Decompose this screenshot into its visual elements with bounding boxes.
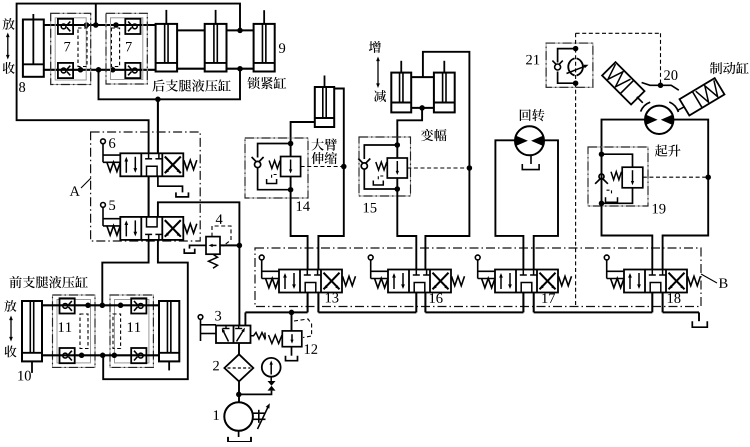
valve 6 drain wire: [158, 176, 183, 192]
pilot check block 7 left: [51, 13, 91, 84]
valve 13 crossed position: [324, 273, 340, 290]
block 11R lower check valve: [131, 348, 146, 363]
section A enclosure: [91, 132, 201, 241]
valve 13 right spring: [343, 276, 356, 286]
label 9: [279, 43, 285, 53]
slewing motor drain: [530, 155, 532, 164]
valve 17 left position arrows: [500, 275, 502, 289]
wire valve5 to front top bus: [102, 240, 148, 305]
valve 17 left spring: [482, 278, 496, 288]
filter 2: [238, 343, 240, 354]
valve 17 right spring: [559, 276, 572, 286]
lock cylinder label: [247, 77, 286, 89]
pump 1: [224, 402, 253, 431]
label 17: [542, 293, 555, 303]
directional valve 13 lever: [259, 255, 264, 260]
front outrigger label: [10, 276, 88, 288]
label 16: [430, 293, 443, 303]
pump shaft: [253, 412, 266, 414]
gauge branch wire: [239, 391, 272, 395]
front top bus wire: [42, 304, 159, 306]
valve 6 left position arrows: [125, 159, 127, 173]
label B: [719, 278, 728, 287]
counterbalance valve 19 enclosure: [588, 147, 648, 206]
front extend-retract arrow: [10, 320, 12, 338]
label 8: [19, 82, 25, 92]
cylinder telescope: [315, 87, 334, 127]
label 7 right: [126, 42, 132, 51]
block 11R pilot lines: [113, 314, 121, 349]
relief valve 12 body: [282, 331, 302, 347]
valve 5 centre position ports: [148, 234, 150, 240]
slewing motor label: [520, 109, 545, 121]
block 7L lower check valve: [58, 63, 73, 78]
label 13: [326, 293, 339, 303]
throttle 21 check branch: [558, 49, 576, 63]
valve 5 left spring: [107, 226, 121, 236]
label 10: [18, 371, 31, 381]
block 11L upper check valve: [60, 298, 75, 313]
counterbalance 15 drain tank: [378, 176, 383, 180]
wire cb19 to valve 18: [602, 203, 653, 269]
valve 16 body: [388, 270, 451, 293]
supply bus wires: [245, 311, 307, 313]
gauge shutoff valve: [268, 381, 276, 386]
section B enclosure: [255, 248, 701, 307]
counterbalance valve 14 enclosure: [245, 138, 308, 198]
label 1: [214, 410, 219, 420]
directional valve 5 lever: [101, 203, 106, 208]
valve 18 body: [624, 270, 687, 293]
cylinder luffing-L: [391, 73, 411, 113]
luffing label: [421, 129, 447, 141]
relief valve 12 spring: [269, 335, 283, 344]
label 15: [364, 203, 377, 213]
slewing motor right wire: [534, 140, 558, 269]
supply wire valve3 to valve5: [158, 202, 240, 325]
wire bus to valve 6 right port: [157, 99, 159, 153]
wire cb14 to valve 13: [291, 190, 308, 270]
pilot check block 7 right: [106, 13, 147, 84]
counterbalance 19 main line: [601, 154, 603, 203]
rear outrigger frame wire: [95, 4, 97, 25]
label 20: [664, 70, 677, 80]
rear bottom bus wire: [44, 69, 156, 71]
valve 18 right spring: [688, 276, 701, 286]
counterbalance 19 relief branch: [602, 154, 633, 167]
valve 6 right spring: [184, 160, 197, 170]
counterbalance 19 pilot line: [643, 176, 708, 178]
valve 16 centre position ports: [415, 270, 417, 276]
valve 6 drain tank: [176, 192, 189, 197]
valve 16 left position arrows: [393, 275, 395, 289]
label fang front: [4, 300, 16, 312]
block 7R upper check valve: [125, 19, 140, 34]
counterbalance 14 main line: [290, 144, 292, 190]
counterbalance 15 pilot line: [407, 167, 469, 169]
luffing bottom feed wire: [397, 108, 422, 145]
directional valve 6 lever: [101, 139, 106, 144]
brake cylinder left rod: [637, 97, 643, 103]
label A: [70, 186, 80, 196]
relief valve 12 pilot line: [294, 319, 312, 338]
telescope rod-side wire: [291, 122, 315, 144]
counterbalance valve 15 enclosure: [359, 137, 411, 196]
counterbalance 19 drain tank: [607, 190, 612, 195]
hydraulic motor hoist (qi sheng): [645, 106, 673, 134]
label 19: [653, 204, 666, 214]
valve 5 right spring: [184, 224, 197, 234]
directional valve 17 lever: [475, 255, 480, 260]
valve 17 body: [495, 270, 558, 293]
valve 3 arrows: [223, 331, 229, 342]
relief valve 4 pilot line: [212, 226, 231, 246]
brake pilot wire: [642, 83, 679, 91]
increase-decrease arrow: [377, 61, 379, 85]
counterbalance 14 check branch: [258, 144, 291, 158]
luffing top feed wire: [423, 52, 470, 270]
cylinder: [156, 24, 178, 72]
relief valve 4 spring: [209, 254, 218, 268]
cylinder 8: [23, 20, 44, 77]
label 3: [215, 311, 221, 321]
telescope label: [312, 138, 337, 150]
valve 18 crossed position: [669, 273, 685, 290]
pump suction tank: [238, 431, 240, 437]
cylinder: [159, 301, 179, 361]
lock cylinder link wires: [177, 29, 205, 31]
valve 3 lever: [198, 315, 203, 320]
valve 17 crossed position: [540, 273, 556, 290]
wire valve3 right port to bus: [244, 312, 246, 325]
relief valve 12 tank: [291, 347, 293, 356]
label 4: [216, 214, 223, 224]
valve 13 left position arrows: [284, 275, 286, 289]
luffing cylinder connectors: [411, 76, 434, 78]
block 11L lower check valve: [60, 348, 75, 363]
block 11L pilot lines: [80, 314, 88, 349]
hydraulic motor slewing (hui zhuan): [515, 126, 544, 155]
valve 6 crossed position: [165, 157, 181, 174]
hoist motor left wire: [602, 120, 647, 155]
counterbalance 15 relief square: [387, 158, 407, 178]
valve 16 crossed position: [433, 273, 449, 290]
valve 13 centre position ports: [306, 270, 308, 276]
label shou (retract): [3, 62, 15, 74]
relief valve 4 body: [206, 237, 220, 255]
pilot check block 11 left: [53, 295, 96, 367]
label 2: [213, 361, 219, 371]
block 7L pilot lines: [78, 28, 87, 67]
label zeng (increase): [369, 41, 381, 53]
valve 3 body: [216, 326, 251, 344]
label 21: [526, 55, 539, 65]
valve 16 right spring: [452, 276, 465, 286]
cylinder luffing-R: [434, 73, 455, 113]
hoist motor right wire: [663, 120, 709, 270]
label 18: [668, 293, 681, 303]
block 7L upper check valve: [58, 19, 73, 34]
label jian (decrease): [374, 90, 386, 102]
extend-retract arrow: [7, 37, 9, 56]
slewing motor left wire: [495, 140, 523, 269]
one-way throttle 21 enclosure: [546, 43, 593, 87]
label fang (extend): [3, 18, 15, 30]
wire lock-cylinder to valve 6 bus: [99, 69, 241, 100]
label 11 right: [128, 322, 140, 332]
relief valve 4 outlet wire: [220, 244, 239, 246]
throttle 21 restrictor: [568, 58, 574, 75]
wire valve5 to front bottom bus: [103, 240, 188, 379]
front bottom bus wire: [42, 354, 159, 356]
valve 18 left spring: [611, 278, 625, 288]
pilot check block 11 right: [110, 295, 153, 367]
wire filter to pump: [238, 381, 240, 402]
wire valve6 to valve5: [148, 176, 150, 217]
valve 18 left position arrows: [629, 275, 631, 289]
label 5: [109, 200, 115, 210]
telescope piston-side wire: [318, 89, 343, 270]
cylinder: [205, 24, 227, 72]
label 6: [109, 138, 115, 148]
rear cylinder group label: [152, 79, 230, 91]
valve 6 body: [120, 153, 183, 176]
brake cylinder right: [680, 78, 725, 115]
brake cylinder left: [602, 62, 644, 104]
cylinder 10: [22, 301, 42, 361]
tank after valve 18: [698, 312, 700, 321]
block 7R lower check valve: [125, 63, 140, 78]
label 7 left: [65, 42, 71, 51]
cylinder 9: [254, 24, 275, 72]
valve 5 body: [120, 217, 183, 240]
label shou front: [5, 346, 17, 358]
block 7R pilot lines: [111, 28, 119, 67]
counterbalance 14 relief square: [281, 157, 301, 177]
rear top bus wire: [44, 24, 156, 26]
valve 6 left spring: [107, 162, 121, 172]
counterbalance 15 check branch: [364, 145, 397, 159]
wire cb15 to valve 16: [397, 189, 416, 270]
relief valve 12 wire: [291, 312, 293, 331]
valve 13 left spring: [266, 278, 280, 288]
counterbalance 14 pilot line: [301, 166, 344, 168]
directional valve 16 lever: [368, 255, 373, 260]
valve 6 centre position ports: [148, 153, 150, 159]
counterbalance 19 check on main: [599, 174, 604, 179]
label 12: [305, 344, 317, 354]
relief valve 4 tank: [190, 245, 207, 248]
pump variable arrow: [258, 406, 269, 429]
valve 16 left spring: [375, 278, 389, 288]
brake cylinder right rod: [677, 107, 685, 111]
valve 5 crossed position: [165, 220, 181, 237]
valve 13 body: [279, 270, 342, 293]
pilot line 21 to brakes: [575, 33, 577, 48]
label 11 left: [59, 322, 71, 332]
hoist label: [655, 145, 681, 157]
valve bottom port wires: [307, 293, 309, 313]
pressure gauge: [262, 358, 281, 377]
valve 17 centre position ports: [522, 270, 524, 276]
valve 5 left position arrows: [125, 222, 127, 236]
valve 18 centre position ports: [651, 270, 653, 276]
counterbalance 19 relief square: [622, 167, 643, 188]
directional valve 18 lever: [604, 255, 609, 260]
counterbalance 15 main line: [396, 145, 398, 189]
label 14: [297, 201, 310, 211]
brake cylinder label: [710, 62, 749, 74]
block 11R upper check valve: [131, 298, 146, 313]
valve 3 spring: [251, 333, 266, 340]
counterbalance 14 drain tank: [272, 175, 277, 179]
